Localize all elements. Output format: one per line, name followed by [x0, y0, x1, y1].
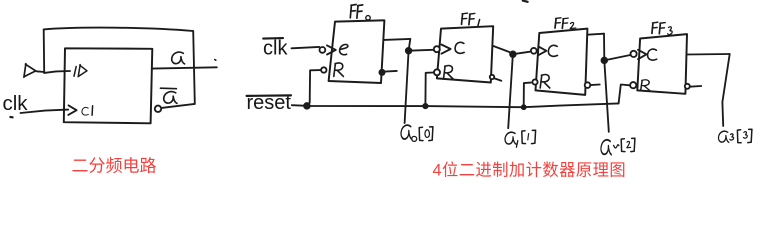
FF3 dynamic clock indicator — [638, 50, 647, 59]
feedback wire: top run — [44, 28, 194, 31]
svg-text:二分频电路: 二分频电路 — [72, 157, 157, 176]
wire reset riser to FF1 R — [425, 73, 433, 107]
svg-text:reset: reset — [247, 92, 292, 114]
feedback wire: bottom run to Q-bar — [161, 104, 194, 108]
wire Q2 vertical — [604, 34, 609, 132]
svg-text:clk: clk — [263, 38, 288, 60]
Q-bar label (overlined) — [160, 88, 177, 103]
FF0 dynamic clock indicator — [327, 45, 336, 54]
wire clk to C1 — [21, 110, 69, 113]
FF1 label — [462, 13, 480, 26]
wire Q1 vertical — [508, 54, 513, 129]
FF0 R pin label — [334, 63, 344, 76]
FF2 Q-bar bubble and stub — [585, 82, 600, 88]
FF1 Q-bar bubble and stub — [490, 75, 502, 81]
wire clk to FF0 clock — [292, 47, 320, 48]
FF1 dynamic clock indicator — [441, 45, 450, 54]
Q-bar output bubble — [155, 106, 161, 112]
clk net label (overlined) — [263, 38, 288, 60]
svg-text:clk: clk — [3, 92, 29, 115]
Q output label — [172, 52, 185, 64]
FF3 R pin label — [641, 80, 650, 91]
FF0 clock bubble — [320, 47, 326, 53]
wire Q2 to FF3 clock — [604, 55, 630, 60]
FF1 clock bubble — [434, 46, 440, 52]
FF0 label — [350, 5, 370, 21]
FF2 dynamic clock indicator — [538, 46, 546, 55]
wire Q0 to FF1 clock — [409, 49, 434, 52]
wire Q1 to FF2 clock — [513, 52, 531, 55]
FF3 Q-bar bubble and stub — [685, 84, 701, 89]
node label Q1[1] — [505, 130, 536, 147]
flip-flop FF3 body — [637, 34, 687, 94]
stray ink speck top edge — [523, 1, 528, 2]
wire reset bus — [292, 103, 619, 107]
node label Q3[3] — [718, 129, 751, 143]
D input label — [24, 64, 36, 78]
FF2 C pin label — [548, 45, 557, 56]
junction node Q1 — [510, 51, 516, 57]
FF2 label — [555, 18, 576, 29]
stray ink speck near Q wire — [215, 59, 216, 62]
wire FF3 Q output — [687, 53, 730, 56]
wire D to feedback node — [37, 70, 45, 73]
flip-flop FF1 body — [437, 26, 493, 82]
FF0 C pin label — [340, 44, 348, 54]
wire Q output — [152, 67, 217, 68]
FF3 label — [652, 22, 672, 34]
FF3 C pin label — [648, 49, 657, 60]
wire reset riser to FF2 R — [524, 83, 531, 108]
FF0 R bubble — [321, 67, 326, 72]
wire reset riser to FF3 R — [619, 85, 630, 104]
wire Q0 vertical — [405, 39, 411, 123]
feedback wire: left vertical — [43, 29, 46, 73]
FF1 R bubble — [434, 69, 440, 75]
D flip-flop U1 body — [64, 48, 153, 123]
wire reset riser to FF0 R — [310, 70, 321, 103]
reset net label (overlined) — [247, 92, 292, 114]
FF3 clock bubble — [631, 51, 637, 57]
feedback wire: right vertical — [193, 31, 195, 104]
FF1 C pin label — [455, 42, 464, 53]
junction node Q2 — [602, 58, 608, 64]
junction dot reset/FF0 — [304, 103, 310, 109]
svg-text:4位二进制加计数器原理图: 4位二进制加计数器原理图 — [433, 162, 627, 180]
junction dot reset/FF2 — [522, 105, 526, 109]
flip-flop FF0 body — [329, 20, 385, 83]
input 1D label — [74, 65, 87, 77]
FF3 R bubble — [630, 82, 636, 88]
clock input C1 dynamic indicator — [68, 105, 76, 115]
node label Q2[2] — [601, 138, 635, 154]
wire FF2 Q output — [587, 34, 604, 35]
wire FF1 Q output — [493, 46, 513, 54]
FF1 R pin label — [444, 66, 454, 79]
wire feedback into 1D input — [44, 71, 70, 73]
node label Q0[0] — [401, 125, 433, 141]
FF2 R bubble — [532, 79, 537, 84]
clock input C1 label — [82, 106, 93, 115]
flip-flop FF2 body — [536, 29, 588, 95]
junction dot reset/FF1 — [423, 104, 427, 108]
junction node Q0 — [406, 48, 412, 54]
wire FF0 Q output — [384, 39, 410, 40]
stray ink dot under clk — [10, 116, 12, 119]
FF0 Q-bar bubble and stub — [379, 70, 396, 75]
FF2 clock bubble — [531, 48, 537, 54]
FF2 R pin label — [540, 75, 550, 88]
wire Q3 vertical — [722, 54, 729, 126]
